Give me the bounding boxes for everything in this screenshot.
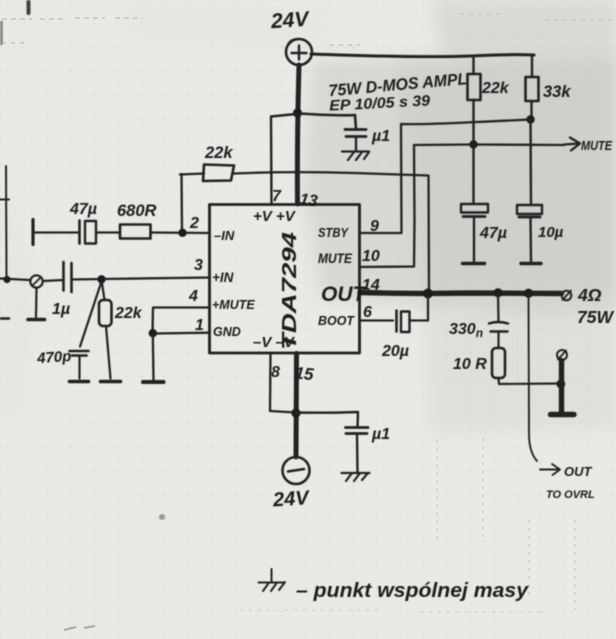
node input left junction xyxy=(3,276,10,283)
wire pin4 mute loop xyxy=(153,308,210,334)
tick left edge xyxy=(0,199,9,201)
wire speaker return thick xyxy=(559,361,564,413)
wire 10R to speaker return xyxy=(499,378,561,384)
svg-text:TDA7294: TDA7294 xyxy=(279,232,301,350)
svg-text:22k: 22k xyxy=(114,305,143,322)
node junction mute line xyxy=(469,140,477,148)
wire boot cap to OUT xyxy=(410,296,429,321)
capacitor 330n zobel xyxy=(489,322,508,332)
arrow ovrl out xyxy=(540,464,560,475)
svg-text:3: 3 xyxy=(194,257,203,274)
wire +V supply vertical to pin 13 xyxy=(297,65,299,204)
wire 33k to 10u cap xyxy=(529,120,532,205)
capacitor 10u mute xyxy=(517,205,542,264)
svg-text:STBY: STBY xyxy=(318,225,349,240)
IC TDA7294 body xyxy=(210,205,360,354)
svg-text:10 R: 10 R xyxy=(453,356,487,373)
svg-text:15: 15 xyxy=(294,363,315,384)
svg-text:µ1: µ1 xyxy=(371,426,390,443)
resistor 33k mute (top right) xyxy=(526,56,539,119)
wire feedback node to pin2 xyxy=(180,174,183,233)
svg-text:1µ: 1µ xyxy=(52,301,70,318)
speaker terminal top xyxy=(562,291,572,301)
svg-text:9: 9 xyxy=(370,218,379,235)
svg-text:OUT: OUT xyxy=(321,283,368,306)
wire left edge vertical xyxy=(5,166,8,279)
wire branch to pin 7 xyxy=(271,114,296,204)
svg-text:– punkt wspólnej masy: – punkt wspólnej masy xyxy=(296,580,529,602)
wire zobel down xyxy=(497,294,500,322)
svg-text:4: 4 xyxy=(188,288,198,305)
ground bar speaker return xyxy=(551,412,575,417)
capacitor 47u input xyxy=(80,221,97,244)
node -IN junction xyxy=(178,229,186,237)
capacitor u1 bottom xyxy=(346,428,369,434)
svg-text:BOOT: BOOT xyxy=(318,314,355,328)
wire junction to decoupling cap u1 top xyxy=(299,114,356,130)
svg-text:6: 6 xyxy=(363,304,372,321)
svg-text:75W: 75W xyxy=(577,307,614,327)
wire gnd down xyxy=(152,334,155,381)
svg-text:4Ω: 4Ω xyxy=(577,285,602,305)
svg-text:10µ: 10µ xyxy=(538,224,564,241)
svg-text:+IN: +IN xyxy=(212,270,234,285)
wire 680R to pin 2 xyxy=(151,231,210,234)
svg-text:MUTE: MUTE xyxy=(581,138,612,153)
svg-text:47µ: 47µ xyxy=(479,225,507,242)
capacitor 47u stby xyxy=(461,204,488,264)
svg-text:1: 1 xyxy=(195,317,204,334)
wire -V to u1 bottom xyxy=(296,412,358,427)
svg-text:22k: 22k xyxy=(481,80,510,97)
wire input connector to 1u xyxy=(43,280,63,281)
svg-text:20µ: 20µ xyxy=(381,343,409,360)
faint marks bottom left xyxy=(64,626,95,630)
wire input connector line xyxy=(0,279,30,281)
svg-text:MUTE: MUTE xyxy=(318,251,353,266)
input terminal bar -IN branch xyxy=(31,220,34,245)
capacitor 20u bootstrap xyxy=(397,311,410,333)
resistor 22k feedback xyxy=(203,165,234,182)
svg-text:–IN: –IN xyxy=(214,228,235,243)
input connector circle xyxy=(30,275,42,287)
wire ovrl out sense xyxy=(529,294,538,461)
speck xyxy=(159,514,165,520)
wire 47u to 680R xyxy=(96,231,120,233)
svg-text:GND: GND xyxy=(213,325,241,339)
svg-text:47µ: 47µ xyxy=(69,201,97,218)
mark top left edge xyxy=(27,2,31,13)
node +IN junction xyxy=(97,275,105,283)
wire mute net: pin10 up to mute arrow line xyxy=(360,145,415,267)
wire u1 bottom to ground xyxy=(356,434,359,472)
node out-zobel junction xyxy=(493,288,502,297)
svg-text:8: 8 xyxy=(271,364,280,381)
resistor 22k input shunt xyxy=(99,283,121,382)
svg-text:TO OVRL: TO OVRL xyxy=(546,489,595,501)
svg-text:33k: 33k xyxy=(543,83,571,101)
wire pin15 supply negative xyxy=(294,354,300,458)
supply terminal +24V xyxy=(286,39,312,65)
speaker terminal bottom xyxy=(557,350,567,360)
svg-text:OUT: OUT xyxy=(564,464,593,479)
wire feedback top horizontal left part xyxy=(180,174,204,175)
svg-text:680R: 680R xyxy=(117,202,157,220)
svg-text:470p: 470p xyxy=(36,348,72,367)
supply terminal -24V xyxy=(283,457,310,484)
minus mark input xyxy=(1,317,9,320)
wire pin1 gnd stub xyxy=(153,332,210,335)
wire input connector ground leg xyxy=(35,288,38,317)
resistor 680R xyxy=(120,225,151,239)
ground symbol top xyxy=(342,152,369,161)
wire u1 to ground xyxy=(355,137,357,150)
resistor 22k stby (top right) xyxy=(468,56,481,144)
wire 22k to 47u cap xyxy=(472,144,474,204)
wire to 47u input cap xyxy=(34,231,78,233)
svg-text:µ1: µ1 xyxy=(371,128,390,145)
node out-boot junction xyxy=(423,289,433,299)
svg-text:24V: 24V xyxy=(271,487,311,512)
svg-text:+MUTE: +MUTE xyxy=(212,298,255,312)
wire 1u to +IN xyxy=(72,278,210,280)
wire 330n to 10R xyxy=(497,332,499,348)
wire feedback top horizontal right part to OUT xyxy=(234,172,429,292)
node junction stby line xyxy=(526,115,534,123)
node junction +V xyxy=(293,108,302,117)
node gnd junction xyxy=(149,329,157,337)
resistor 10R zobel xyxy=(492,348,505,378)
wire supply top horizontal to resistors xyxy=(311,54,534,57)
wire OUT thick xyxy=(360,293,562,294)
input ground bar xyxy=(28,318,45,322)
svg-text:7: 7 xyxy=(272,188,282,205)
capacitor 1u input xyxy=(64,262,72,292)
ground terminal bar pin1 xyxy=(143,380,164,384)
node speaker return junction xyxy=(556,380,565,389)
svg-text:2: 2 xyxy=(189,215,199,232)
svg-text:24V: 24V xyxy=(269,8,311,34)
node out-ovrl junction xyxy=(524,289,533,298)
wire mute arrow xyxy=(414,143,564,146)
capacitor u1 top decoupling xyxy=(345,130,366,137)
svg-text:10: 10 xyxy=(362,248,380,265)
ground symbol legend note xyxy=(259,569,286,591)
capacitor 470p xyxy=(70,283,102,382)
svg-text:+V +V: +V +V xyxy=(253,208,297,225)
node -V junction xyxy=(291,408,300,417)
svg-text:22k: 22k xyxy=(204,144,233,162)
wire pin6 boot stub xyxy=(360,319,393,321)
wire pin8 xyxy=(270,354,296,413)
wire stby net: pin9 up and right to 33k xyxy=(361,120,531,234)
ground symbol bottom xyxy=(342,473,370,481)
svg-text:13: 13 xyxy=(299,191,319,210)
